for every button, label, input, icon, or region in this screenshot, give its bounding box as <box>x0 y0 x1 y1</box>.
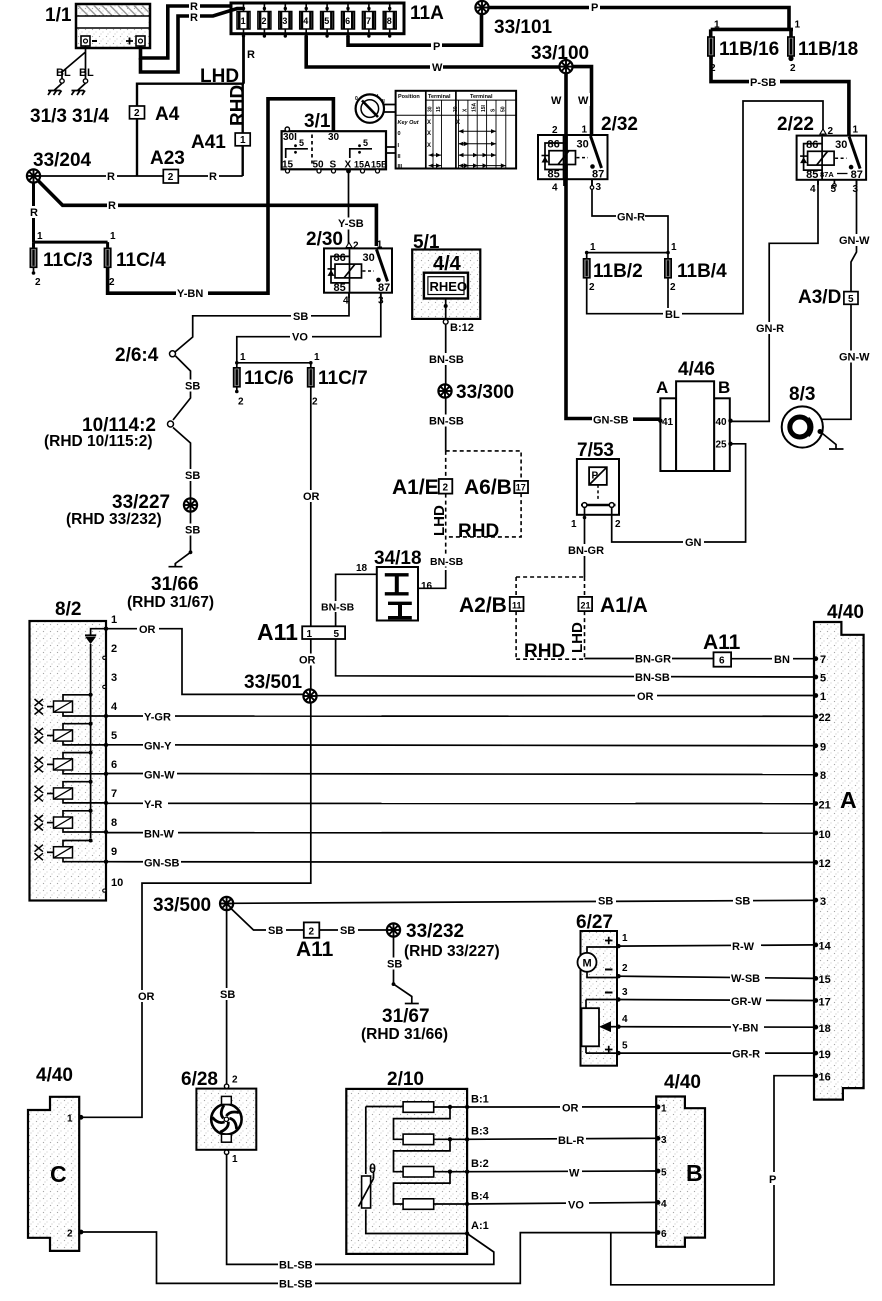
wire battery plus to fusebox R upper <box>141 6 232 58</box>
wire 33/501 down OR to 4/40C pin1 <box>79 703 311 1118</box>
fuse 11C/4 <box>104 231 166 288</box>
wire 33/204 down to 11C/3 <box>32 182 35 242</box>
svg-text:(RHD 33/232): (RHD 33/232) <box>66 511 162 528</box>
connector A11 boxes 1 5 <box>257 619 345 645</box>
svg-text:2: 2 <box>353 241 359 252</box>
svg-text:21: 21 <box>819 800 831 812</box>
connector A3/D box 5 <box>798 287 858 308</box>
svg-text:SB: SB <box>598 896 613 908</box>
svg-text:2: 2 <box>109 277 115 288</box>
relay 2/30 internals <box>306 229 390 307</box>
label Y-GR <box>143 711 175 724</box>
wire 6/27 pin2 W-SB to 4/40A pin15 <box>617 976 814 978</box>
wire 7/53 pin1 BN-GR down <box>584 507 586 577</box>
svg-text:15: 15 <box>436 106 442 112</box>
svg-text:Y-SB: Y-SB <box>338 218 364 230</box>
fuse 11C/7 <box>308 352 368 408</box>
svg-text:P-SB: P-SB <box>750 77 776 89</box>
wire R horizontal to A23 <box>40 175 243 177</box>
fuse box 11A fuses 1-8 <box>237 5 396 38</box>
fuse 11C/6 <box>234 352 294 408</box>
svg-text:6: 6 <box>111 759 117 771</box>
svg-text:33/227: 33/227 <box>112 492 170 513</box>
svg-text:6: 6 <box>345 16 350 26</box>
svg-text:A4: A4 <box>155 104 180 125</box>
svg-text:P: P <box>591 2 598 14</box>
svg-text:VO: VO <box>568 1200 584 1212</box>
svg-text:BN: BN <box>774 654 790 666</box>
fuse box 11A body <box>231 3 404 34</box>
svg-text:9: 9 <box>820 742 826 754</box>
svg-text:2: 2 <box>134 108 140 119</box>
svg-text:14: 14 <box>819 941 832 953</box>
wire A11 pin1 OR to 33/501 <box>310 639 312 690</box>
svg-text:16: 16 <box>819 1072 831 1084</box>
label R right of A23 <box>208 170 219 183</box>
svg-text:GN: GN <box>685 537 702 549</box>
svg-text:1: 1 <box>314 352 320 363</box>
svg-text:2/32: 2/32 <box>601 114 638 135</box>
svg-text:GN-SB: GN-SB <box>144 858 180 870</box>
svg-text:2: 2 <box>309 927 315 938</box>
svg-text:2: 2 <box>443 483 449 494</box>
svg-text:50: 50 <box>500 106 506 112</box>
label R battery wire upper <box>189 1 200 14</box>
wire 33/500 down SB to fan 6/28 pin2 <box>226 910 228 1084</box>
svg-text:3: 3 <box>378 296 384 307</box>
svg-text:10: 10 <box>819 829 831 841</box>
svg-text:5/1: 5/1 <box>413 232 440 253</box>
svg-text:1: 1 <box>307 629 313 640</box>
wire 2/10 B:2 W to 4/40B pin5 <box>467 1170 656 1173</box>
wire 11C/3 bottom stub <box>33 267 35 273</box>
wire battery minus split <box>62 46 86 79</box>
wire lever 10/114:2 down to 33/227 <box>173 428 191 499</box>
svg-text:3/1: 3/1 <box>304 111 331 132</box>
label W left vertical <box>550 93 563 107</box>
label R-W <box>731 940 761 953</box>
ground 31/4 <box>72 79 110 127</box>
svg-text:2: 2 <box>710 63 716 74</box>
label SB below 33/227 <box>183 524 203 537</box>
svg-text:A6/B: A6/B <box>464 476 512 499</box>
fuse 11B/16 <box>708 20 779 75</box>
svg-text:SB: SB <box>185 470 200 482</box>
svg-text:41: 41 <box>662 417 674 428</box>
svg-text:1: 1 <box>571 519 577 530</box>
svg-text:VO: VO <box>292 332 308 344</box>
svg-text:BN-SB: BN-SB <box>429 416 464 428</box>
svg-text:17: 17 <box>819 997 831 1009</box>
fan motor 6/28 body <box>196 1089 256 1150</box>
svg-text:5: 5 <box>299 138 304 148</box>
wire 2/10 B:4 VO to 4/40B pin4 <box>467 1202 656 1204</box>
wire switch lever 2/6:4 to 10/114:2 <box>173 356 191 420</box>
fuse 11B/18 <box>788 20 858 75</box>
solenoid 7/53 internals <box>571 440 621 530</box>
svg-text:1: 1 <box>111 614 117 626</box>
svg-text:3: 3 <box>820 896 826 908</box>
svg-text:GN-R: GN-R <box>756 323 784 335</box>
ignition key-position table body <box>396 91 516 169</box>
svg-text:RHD: RHD <box>228 85 249 126</box>
svg-text:2: 2 <box>111 643 117 655</box>
svg-text:15A: 15A <box>472 102 478 112</box>
wire relay 2/30 pin3 VO to 11C/7 <box>237 293 381 363</box>
svg-text:A41: A41 <box>191 132 226 153</box>
svg-text:0: 0 <box>398 131 401 137</box>
svg-text:R: R <box>247 49 255 61</box>
svg-text:21: 21 <box>581 601 591 611</box>
svg-text:P: P <box>433 41 440 53</box>
svg-text:6: 6 <box>661 1229 667 1240</box>
wire LHD to 34/18 pin16 <box>418 570 446 588</box>
svg-text:LHD: LHD <box>569 622 586 653</box>
svg-text:(RHD 31/67): (RHD 31/67) <box>127 594 214 611</box>
wire 8/2 pin8 BN-W to 4/40A pin10 <box>106 832 814 834</box>
wire 11B/16 to P-SB to relay 2/22 pin1 <box>711 57 849 136</box>
connector A2/B box 11 <box>459 594 524 617</box>
junction 33/501 <box>303 689 316 702</box>
svg-text:4: 4 <box>552 183 558 194</box>
svg-text:SB: SB <box>185 525 200 537</box>
svg-text:4: 4 <box>622 1014 628 1025</box>
fuse 11B/4 <box>665 242 727 293</box>
relay 2/30 body <box>324 248 392 292</box>
svg-text:θ: θ <box>369 1161 376 1176</box>
wire relay 2/22 pin3 GN-W to A3/D to horn <box>810 180 857 419</box>
wire 8/2 pin4 Y-GR to 4/40A pin22 <box>106 715 814 717</box>
label P at fuse box <box>431 40 442 54</box>
svg-text:BN-SB: BN-SB <box>635 672 670 684</box>
svg-text:1: 1 <box>377 240 383 251</box>
svg-text:2/6:4: 2/6:4 <box>115 345 159 366</box>
svg-text:W: W <box>551 95 562 107</box>
relay cells in 8/2 <box>35 693 109 718</box>
wire 33/227 to ground 31/66 <box>175 512 190 567</box>
svg-text:A1/E: A1/E <box>392 476 439 499</box>
svg-text:III: III <box>398 164 403 170</box>
svg-text:1: 1 <box>671 242 677 253</box>
svg-text:11B/16: 11B/16 <box>719 39 779 60</box>
svg-text:18: 18 <box>819 1023 831 1035</box>
svg-text:2: 2 <box>67 1229 73 1240</box>
ground 31/66 <box>127 550 214 611</box>
svg-text:1: 1 <box>232 1154 238 1165</box>
svg-text:(RHD 33/227): (RHD 33/227) <box>404 943 500 960</box>
svg-text:C: C <box>50 1161 67 1187</box>
svg-text:4/46: 4/46 <box>678 359 715 380</box>
svg-text:10: 10 <box>111 877 123 889</box>
label P right of 33/101 <box>589 1 600 14</box>
connector A11 box 2 lower <box>296 922 334 961</box>
servo motor 6/27 internals <box>576 912 628 1055</box>
svg-text:31/4: 31/4 <box>72 106 109 127</box>
label OR below A11 <box>297 654 318 667</box>
svg-text:LHD: LHD <box>431 505 448 536</box>
svg-text:P: P <box>592 471 599 482</box>
svg-text:A11: A11 <box>703 631 741 654</box>
svg-text:30I: 30I <box>283 132 297 143</box>
svg-text:II: II <box>398 154 402 160</box>
svg-text:RHEO: RHEO <box>430 279 468 294</box>
relay 2/32 body <box>538 135 608 179</box>
wire 2/10 B:3 BL-R to 4/40B pin3 <box>467 1138 656 1139</box>
dashed A1/E A6/B box <box>446 451 521 570</box>
relay 2/32 internals <box>542 114 638 194</box>
svg-text:1: 1 <box>37 231 43 242</box>
svg-text:A1/A: A1/A <box>600 594 648 617</box>
svg-text:33/204: 33/204 <box>33 150 92 171</box>
svg-text:33/500: 33/500 <box>153 895 211 916</box>
wire LHD horizontal <box>137 82 244 84</box>
svg-text:11C/3: 11C/3 <box>43 250 93 271</box>
relay 2/22 body <box>797 136 867 180</box>
connector 4/40 B labels <box>656 1072 703 1240</box>
label SB right of 33/500 <box>733 895 753 908</box>
svg-text:2: 2 <box>262 16 267 26</box>
svg-text:2: 2 <box>828 126 834 137</box>
svg-text:B:3: B:3 <box>471 1126 489 1138</box>
svg-text:18: 18 <box>356 563 368 574</box>
svg-text:1: 1 <box>661 1104 667 1115</box>
svg-text:2: 2 <box>312 397 318 408</box>
svg-text:B:1: B:1 <box>471 1094 489 1106</box>
svg-text:B:12: B:12 <box>450 322 474 334</box>
svg-text:BL: BL <box>79 67 94 79</box>
label SB right of A11 <box>338 924 358 937</box>
label GN-W lower <box>838 351 872 364</box>
svg-text:SB: SB <box>340 925 355 937</box>
svg-text:7: 7 <box>111 788 117 800</box>
label BN-SB A11 column <box>320 601 355 614</box>
svg-text:15B: 15B <box>371 160 388 170</box>
ignition switch 3/1 internals <box>282 111 396 173</box>
label BN-GR vertical <box>567 544 604 557</box>
label W right vertical <box>577 93 590 107</box>
svg-text:33/101: 33/101 <box>494 17 553 38</box>
control unit 4/46 body <box>660 381 729 471</box>
svg-text:Key Out: Key Out <box>398 120 420 126</box>
svg-text:R-W: R-W <box>732 941 755 953</box>
label BL <box>663 308 682 321</box>
label VO at relay 2/30 pin3 <box>290 331 312 344</box>
svg-text:OR: OR <box>562 1103 579 1115</box>
svg-text:8: 8 <box>111 817 117 829</box>
svg-text:4/40: 4/40 <box>827 602 864 623</box>
svg-text:33/300: 33/300 <box>456 382 514 403</box>
label BN-SB upper <box>428 353 464 366</box>
label GN-SB 8/2 <box>143 857 181 870</box>
label GN-W upper <box>838 234 872 247</box>
svg-text:1: 1 <box>820 691 826 703</box>
svg-text:(RHD 10/115:2): (RHD 10/115:2) <box>44 433 153 450</box>
label W to B pin5 <box>568 1167 582 1180</box>
svg-text:R: R <box>30 207 38 219</box>
svg-text:11C/7: 11C/7 <box>318 368 368 389</box>
label R under fuse 1 <box>246 48 256 61</box>
svg-text:30: 30 <box>428 106 434 112</box>
svg-text:12: 12 <box>819 858 831 870</box>
svg-text:W: W <box>569 1168 580 1180</box>
svg-text:8/2: 8/2 <box>55 599 81 620</box>
svg-text:Y-GR: Y-GR <box>144 712 171 724</box>
relay box 8/2 internals <box>55 599 123 892</box>
svg-text:3: 3 <box>853 184 859 195</box>
svg-text:11B/18: 11B/18 <box>798 39 858 60</box>
junction 33/100 <box>559 60 572 73</box>
wire 11C/4 to Y-BN to ignition 30 <box>108 99 334 293</box>
control unit 4/46 labels <box>656 359 733 451</box>
svg-text:BL-SB: BL-SB <box>279 1260 313 1272</box>
wire ignition X terminal to relay 2/30 pin2 Y-SB <box>348 171 350 246</box>
svg-text:2: 2 <box>589 282 595 293</box>
svg-text:1: 1 <box>582 125 588 136</box>
svg-text:SB: SB <box>387 959 402 971</box>
svg-text:30: 30 <box>328 132 340 143</box>
svg-text:SB: SB <box>220 989 235 1001</box>
svg-text:1: 1 <box>241 16 246 26</box>
ground 31/3 <box>30 79 67 127</box>
svg-text:RHD: RHD <box>524 641 565 662</box>
label SB at relay 2/30 pin4 <box>291 311 311 324</box>
svg-text:X: X <box>456 120 460 126</box>
wire 8/2 pin1 OR to 33/501 <box>106 629 304 695</box>
svg-text:5: 5 <box>324 16 329 26</box>
wire A41 vertical RHD <box>241 84 243 176</box>
svg-text:4: 4 <box>810 184 816 195</box>
wire 4/40C pin2 BL-SB to 4/40B pin6 <box>79 1232 656 1283</box>
svg-text:1: 1 <box>240 135 246 146</box>
svg-text:R: R <box>209 171 217 183</box>
wire 8/2 pin6 GN-W to 4/40A pin8 <box>106 774 814 775</box>
svg-text:1: 1 <box>240 352 246 363</box>
label GN <box>683 536 704 549</box>
svg-text:4/40: 4/40 <box>664 1072 701 1093</box>
svg-text:GN-W: GN-W <box>839 352 870 364</box>
svg-text:5: 5 <box>848 294 854 305</box>
svg-text:4: 4 <box>343 296 349 307</box>
label OR to B pin1 <box>560 1102 582 1115</box>
svg-text:5: 5 <box>831 184 837 195</box>
svg-text:5: 5 <box>363 138 368 148</box>
svg-text:6/27: 6/27 <box>576 912 613 933</box>
relay 2/22 internals <box>777 114 863 195</box>
svg-text:X: X <box>427 120 431 126</box>
wire 6/27 pin3 GR-W to 4/40A pin17 <box>617 1000 814 1001</box>
svg-text:B:2: B:2 <box>471 1158 489 1170</box>
svg-text:16: 16 <box>421 581 433 592</box>
switch 2/6:4 <box>115 345 176 366</box>
svg-text:P: P <box>769 1174 776 1186</box>
svg-text:3: 3 <box>661 1135 667 1146</box>
label W at fuse box <box>430 61 443 74</box>
svg-text:3: 3 <box>111 672 117 684</box>
ignition table internals <box>396 91 516 170</box>
svg-text:W: W <box>578 95 589 107</box>
wire rheostat B:12 BN-SB down to A1/E <box>445 325 447 451</box>
svg-text:GN-W: GN-W <box>144 770 175 782</box>
svg-text:2: 2 <box>238 397 244 408</box>
wire 11B/2 11B/4 bottoms BL to relay 2/22 pin2 <box>587 101 823 314</box>
label BL-SB lower <box>278 1278 315 1291</box>
svg-text:W-SB: W-SB <box>731 973 760 985</box>
svg-text:R: R <box>108 200 116 212</box>
connector 4/40 A body <box>814 622 864 1100</box>
svg-text:GN-R: GN-R <box>617 212 645 224</box>
svg-text:7: 7 <box>366 16 371 26</box>
svg-text:Terminal: Terminal <box>470 94 493 100</box>
label SB on diagonal <box>266 924 286 937</box>
svg-text:5: 5 <box>622 1041 628 1052</box>
svg-text:A:1: A:1 <box>471 1220 489 1232</box>
label BN-SB to pin5 <box>634 671 671 684</box>
label GN-R 2/32 <box>616 211 645 224</box>
wire fuse4 W to 33/100 <box>306 36 566 67</box>
svg-text:6/28: 6/28 <box>181 1069 218 1090</box>
svg-text:2/22: 2/22 <box>777 114 814 135</box>
svg-text:BN-W: BN-W <box>144 829 175 841</box>
wire 11C/7 OR down to A11 <box>310 387 312 627</box>
wire 11C/6 bottom stub <box>236 387 238 392</box>
svg-text:B: B <box>686 1160 703 1186</box>
dimmer module 5/1 body <box>412 250 480 319</box>
label BN-W <box>143 828 178 841</box>
wire relay 2/30 pin4 SB to switch chain <box>175 293 349 352</box>
junction 33/204 <box>27 169 40 182</box>
svg-text:SB: SB <box>185 381 200 393</box>
label OR 8/2 pin1 <box>137 623 159 636</box>
svg-text:X: X <box>427 143 431 149</box>
svg-text:11B/2: 11B/2 <box>593 261 643 282</box>
wire fuse1 R down to LHD corner <box>242 34 245 84</box>
connector A1/A box 21 <box>578 594 647 617</box>
svg-text:2: 2 <box>622 963 628 974</box>
label R battery wire lower <box>189 12 200 25</box>
svg-text:GN-SB: GN-SB <box>593 415 629 427</box>
svg-text:BN-SB: BN-SB <box>321 602 355 614</box>
svg-text:2: 2 <box>168 172 174 183</box>
relay box 8/2 body <box>30 621 107 901</box>
label GR-W <box>730 995 766 1008</box>
label R left of A23 <box>106 170 117 183</box>
wire 8/2 pin5 GN-Y to 4/40A pin9 <box>106 744 814 747</box>
svg-text:5: 5 <box>661 1168 667 1179</box>
wire 34/18 pin18 to A11 pin5 <box>336 574 377 626</box>
svg-text:BL-SB: BL-SB <box>279 1279 313 1291</box>
svg-text:Y-R: Y-R <box>144 799 162 811</box>
svg-text:Position: Position <box>398 94 420 100</box>
svg-text:11C/4: 11C/4 <box>116 250 166 271</box>
svg-text:1: 1 <box>795 20 801 31</box>
svg-text:8: 8 <box>387 16 392 26</box>
svg-text:(RHD 31/66): (RHD 31/66) <box>361 1026 448 1043</box>
svg-text:A11: A11 <box>296 938 334 961</box>
svg-text:8/3: 8/3 <box>789 384 815 405</box>
label SB to A pin3 <box>596 895 616 908</box>
wire P from 33/101 to 11B fuses <box>488 8 793 38</box>
svg-text:LHD: LHD <box>200 66 239 87</box>
svg-text:2/10: 2/10 <box>387 1069 424 1090</box>
svg-text:25: 25 <box>716 440 728 451</box>
svg-text:BL: BL <box>56 67 71 79</box>
svg-text:40: 40 <box>716 417 728 428</box>
connector A23 box 2 <box>150 148 185 183</box>
label GN-Y <box>143 740 175 753</box>
svg-text:BN-GR: BN-GR <box>635 654 671 666</box>
label SB below 10/114:2 <box>183 469 203 482</box>
svg-text:1: 1 <box>622 933 628 944</box>
